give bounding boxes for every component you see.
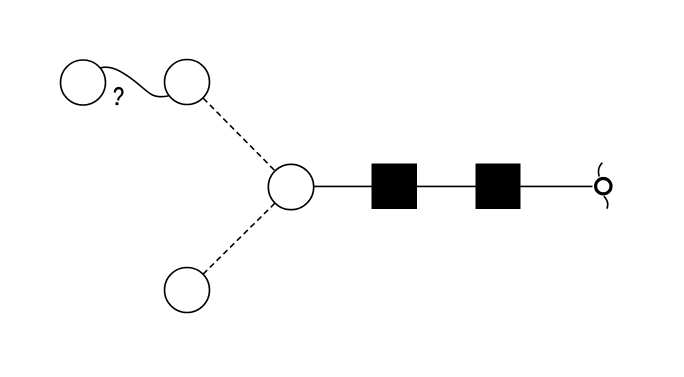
reducing end squiggle top arc — [598, 163, 602, 177]
wire square 2 to reducing end — [521, 185, 593, 187]
node circle top-left (monosaccharide) — [61, 60, 106, 105]
node filled square 2 (monosaccharide) — [476, 164, 521, 209]
wire wavy linkage between top-left circles — [101, 67, 169, 96]
reducing end circle — [596, 179, 611, 194]
wire dashed linkage central circle to bottom-left circle — [203, 203, 275, 274]
wire central circle to first square — [314, 185, 372, 187]
node circle central (monosaccharide) — [268, 164, 313, 209]
node filled square 1 (monosaccharide) — [372, 164, 418, 209]
wire dashed linkage top-middle circle to central circle — [203, 98, 275, 171]
value label ? (unknown linkage) — [114, 87, 123, 105]
wire square 1 to square 2 — [417, 185, 476, 187]
reducing end squiggle bottom arc — [604, 196, 608, 209]
node circle bottom-left (monosaccharide) — [165, 268, 210, 313]
node circle top-middle (monosaccharide) — [165, 60, 210, 105]
